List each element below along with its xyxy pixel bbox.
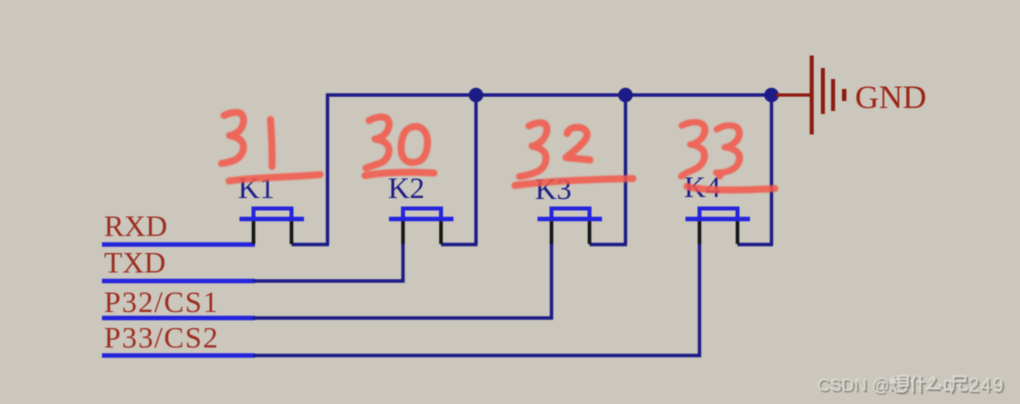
svg-text:RXD: RXD — [104, 210, 167, 243]
svg-text:P33/CS2: P33/CS2 — [104, 322, 219, 355]
svg-text:GND: GND — [855, 80, 927, 116]
svg-text:K2: K2 — [388, 172, 425, 205]
svg-text:TXD: TXD — [104, 247, 166, 280]
svg-text:P32/CS1: P32/CS1 — [104, 286, 219, 319]
